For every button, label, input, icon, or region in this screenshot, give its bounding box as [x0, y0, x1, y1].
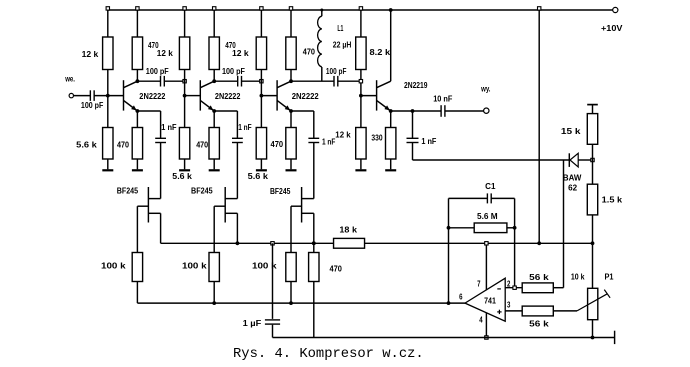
wire +10V supply rail [108, 9, 613, 11]
label P1 [605, 273, 615, 282]
node emitter stage 3 [289, 109, 293, 113]
svg-text:12 k: 12 k [157, 49, 174, 58]
wire Q4 emitter to 330 [390, 111, 392, 128]
wire 12k to base node stage 2 [184, 70, 186, 96]
svg-text:470: 470 [303, 48, 316, 57]
resistor 470 emitter stage 2 [209, 128, 219, 160]
label 10 nF [433, 94, 452, 103]
resistor 470 emitter stage 3 [286, 128, 296, 160]
svg-text:Rys. 4. Kompresor w.cz.: Rys. 4. Kompresor w.cz. [233, 347, 424, 362]
wire 100k to output bus stage 2 [213, 282, 215, 304]
svg-text:wy.: wy. [480, 84, 490, 93]
label BF245 stage 1 [117, 186, 139, 195]
svg-text:1 nF: 1 nF [421, 137, 436, 146]
node pin 7 bus tap [485, 242, 488, 245]
node rail tap 8.2k [359, 7, 362, 10]
node coupling junction stage 2 [183, 80, 186, 83]
power tap bar 15k [587, 105, 598, 114]
wire JFET source to bus stage 2 [236, 213, 238, 243]
label 2N2222 stage 2 [215, 92, 241, 101]
capacitor 1 nF detector [407, 138, 419, 142]
wire base lead stage 2 [185, 95, 201, 97]
svg-text:2N2222: 2N2222 [139, 92, 166, 101]
node rail tap stage 3 bias [260, 7, 263, 10]
resistor 12 k stage 3 [256, 37, 266, 70]
label 10 k [571, 273, 585, 282]
wire base node to 5.6k stage 2 [184, 96, 186, 128]
wire rail drop to bus [538, 10, 540, 243]
resistor 100 k stage 3 [286, 253, 296, 282]
node bus right end [591, 241, 595, 245]
wire 5.6M left lead [449, 227, 475, 229]
ground stage 1 emitter [132, 159, 143, 170]
svg-text:100 pF: 100 pF [81, 101, 104, 110]
svg-text:1.5 k: 1.5 k [602, 195, 623, 204]
node 5.6M left [447, 226, 451, 230]
node 100k output bus junction stage 3 [289, 301, 293, 305]
node 5.6M right [513, 226, 517, 230]
label 12 k Q4 [335, 131, 351, 140]
svg-text:12 k: 12 k [335, 131, 351, 140]
label 1 nF stage 3 [322, 137, 336, 146]
svg-text:100 pF: 100 pF [146, 67, 169, 76]
wire base node to 5.6k stage 1 [107, 96, 109, 128]
wire rail drop stage 2 collector [213, 10, 215, 37]
wire JFET source to bus stage 3 [313, 213, 315, 243]
svg-text:5.6 M: 5.6 M [477, 212, 498, 221]
resistor 470 collector stage 2 [209, 37, 219, 70]
capacitor C1 [487, 193, 491, 203]
wire pin 2 lead [505, 287, 522, 289]
resistor 470 emitter stage 1 [132, 128, 142, 160]
label C1 [485, 182, 496, 191]
svg-text:C1: C1 [485, 182, 496, 191]
resistor 1.5 k [587, 184, 597, 215]
wire 470 to collector node stage 2 [213, 70, 215, 82]
wire output node to 10nF [413, 110, 442, 112]
wire coupling cap to next stage 2 [242, 80, 262, 82]
label 470 emitter stage 1 [117, 141, 130, 150]
wire 12k to base node stage 1 [107, 70, 109, 96]
wire C to base node [94, 95, 123, 97]
wire pin 4 to bottom bus [485, 313, 487, 338]
wire feedback top left [449, 197, 488, 199]
label 1 nF detector [421, 137, 436, 146]
label 330 [371, 133, 383, 142]
ground Q4 emitter [385, 159, 396, 170]
svg-text:1 nF: 1 nF [161, 123, 176, 132]
label 100 k stage 1 [101, 262, 126, 271]
wire rail drop stage 3 collector [290, 10, 292, 37]
svg-text:470: 470 [196, 141, 209, 150]
caption Rys. 4. Kompresor w.cz. [233, 347, 424, 362]
label 470 collector stage 2 [225, 41, 236, 50]
label 100 pF coupling stage 1 [146, 67, 169, 76]
wire rail drop stage 1 bias [107, 10, 109, 37]
svg-text:2N2222: 2N2222 [215, 92, 241, 101]
label 100 k stage 3 [252, 262, 277, 271]
label 8.2 k [370, 48, 391, 57]
label 470 emitter stage 3 [271, 140, 284, 149]
label pin 2 [507, 279, 511, 288]
node pin 2 feedback tap [513, 286, 516, 289]
svg-text:BF245: BF245 [191, 186, 213, 195]
wire collector to coupling cap stage 1 [137, 80, 160, 82]
wire 56k lower to wiper [553, 310, 577, 312]
node collector stage 3 [289, 79, 293, 83]
label 470 collector stage 1 [148, 41, 159, 50]
resistor 5.6 k stage 2 [179, 128, 189, 160]
label 12 k stage 3 [232, 49, 249, 58]
svg-text:BF245: BF245 [117, 186, 139, 195]
wire 1nF to JFET drain stage 2 [236, 143, 238, 199]
wire 1uF to bottom bus [272, 325, 274, 338]
wire 56k upper to detector [553, 160, 563, 288]
transistor BF245 stage 3 [291, 187, 314, 223]
node JFET source bus junction stage 2 [236, 241, 240, 245]
svg-text:10 k: 10 k [571, 273, 585, 282]
wire feedback right vertical [514, 198, 516, 287]
wire feedback top right [491, 197, 514, 199]
wire gate drop stage 3 [290, 206, 292, 252]
transistor Q2 2N2222 [200, 80, 214, 111]
wire collector to coupling cap stage 2 [214, 80, 238, 82]
label 2N2219 [404, 81, 428, 90]
wire output node to det 1nF [412, 111, 414, 138]
resistor 100 k stage 2 [209, 253, 219, 282]
ground Q4 base divider [355, 159, 366, 170]
wire base node to 12k Q4 [360, 96, 362, 128]
wire rail drop stage 2 bias [184, 10, 186, 37]
capacitor 100 pF coupling stage 3 [334, 76, 338, 87]
label BF245 stage 2 [191, 186, 213, 195]
label 470 collector stage 3 [303, 48, 316, 57]
node 470 tap [312, 241, 316, 245]
label L1 [337, 24, 343, 33]
capacitor 100 pF coupling stage 1 [161, 76, 165, 87]
wire 470 control to bottom bus [313, 282, 315, 338]
node feedback output junction [447, 301, 451, 305]
wire Q4 collector to rail [390, 10, 392, 81]
node diode junction [591, 158, 594, 161]
node base stage 3 [260, 94, 264, 98]
ground stage 2 emitter [209, 159, 220, 170]
svg-text:P1: P1 [605, 273, 615, 282]
label 470 control [330, 265, 343, 274]
label 56 k lower [529, 320, 549, 329]
svg-text:100 k: 100 k [101, 262, 126, 271]
label +10V [601, 24, 623, 33]
node emitter Q4 [389, 109, 393, 113]
svg-text:5.6 k: 5.6 k [76, 141, 97, 150]
wire 5.6M right lead [507, 227, 515, 229]
wire base node to 5.6k stage 3 [260, 96, 262, 128]
svg-text:BF245: BF245 [270, 187, 291, 196]
node rail tap bus drop [538, 7, 541, 10]
capacitor 1 nF stage 2 [232, 138, 243, 142]
wire emitter to 1nF stage 1 [137, 111, 160, 138]
svg-text:1 nF: 1 nF [238, 123, 252, 132]
wire rail drop 8.2k [360, 10, 362, 37]
wire 470 to collector node stage 1 [136, 70, 138, 82]
terminal bottom bus end [614, 331, 616, 344]
capacitor 1 uF [265, 320, 280, 324]
ground stage 2 bias [179, 159, 190, 170]
label pin 3 [507, 300, 511, 309]
wire 1nF to JFET drain stage 3 [313, 143, 315, 199]
resistor 8.2 k [356, 37, 366, 70]
wire input to C [74, 95, 91, 97]
svg-text:62: 62 [568, 183, 578, 192]
transistor BF245 stage 1 [137, 187, 160, 223]
wire 1nF to JFET drain stage 1 [160, 143, 162, 199]
wire rail drop stage 1 collector [136, 10, 138, 37]
svg-text:1 µF: 1 µF [243, 319, 262, 328]
inductor L1 22 uH [318, 16, 322, 67]
resistor 12 k stage 2 [179, 37, 189, 70]
label 2N2222 stage 3 [292, 92, 320, 101]
label plus input [497, 310, 501, 314]
svg-text:+10V: +10V [601, 24, 623, 33]
wire 100k to output bus stage 3 [290, 282, 292, 304]
svg-text:470: 470 [330, 265, 343, 274]
label 15 k [561, 127, 581, 136]
svg-text:10 nF: 10 nF [433, 94, 452, 103]
label 1 nF stage 1 [161, 123, 176, 132]
svg-text:56 k: 56 k [529, 273, 549, 282]
node emitter stage 1 [136, 109, 140, 113]
wire 12k to base node stage 3 [260, 70, 262, 96]
terminal +10V [613, 7, 618, 12]
wire 1uF tap down [272, 243, 274, 319]
svg-text:5.6 k: 5.6 k [172, 172, 192, 181]
resistor 5.6 k stage 3 [256, 128, 266, 160]
node 100k output bus junction stage 2 [212, 301, 216, 305]
wire 15k to diode junction [592, 144, 594, 160]
node rail tap stage 3 collector [289, 7, 292, 10]
svg-text:2N2219: 2N2219 [404, 81, 428, 90]
label 18 k [339, 226, 357, 235]
wire 470 to collector node stage 3 [290, 70, 292, 82]
capacitor 100 pF input [90, 90, 94, 101]
resistor 5.6 M [474, 223, 507, 233]
wire source bus left [161, 242, 334, 244]
label 1.5 k [602, 195, 623, 204]
wire emitter to 1nF stage 3 [291, 111, 314, 138]
transistor BF245 stage 2 [214, 187, 237, 223]
node rail tap stage 1 collector [136, 7, 139, 10]
transistor Q3 2N2222 [277, 80, 291, 111]
wire Q4 emitter to output node [391, 110, 413, 112]
resistor 470 collector stage 1 [132, 37, 142, 70]
label BF245 stage 3 [270, 187, 291, 196]
label wy. [480, 84, 490, 93]
wire base lead stage 3 [261, 95, 277, 97]
resistor 470 control [309, 253, 319, 282]
label 741 [484, 297, 496, 306]
svg-text:12 k: 12 k [82, 50, 99, 59]
capacitor 100 pF coupling stage 2 [238, 76, 242, 87]
terminal input we. [69, 93, 73, 97]
transistor Q1 2N2222 [124, 80, 138, 111]
resistor 12 k Q4 [356, 128, 366, 160]
label 62 [568, 183, 578, 192]
wire gate drop stage 2 [213, 206, 215, 252]
ground stage 3 bias [256, 159, 267, 170]
node 1uF tap [271, 242, 274, 245]
node coupling junction stage 3 [260, 80, 263, 83]
node collector stage 1 [136, 79, 140, 83]
svg-text:4: 4 [479, 315, 483, 324]
label 1 nF stage 2 [238, 123, 252, 132]
svg-text:470: 470 [117, 141, 130, 150]
svg-text:2N2222: 2N2222 [292, 92, 320, 101]
wire output bus [137, 302, 465, 304]
label 22 uH [333, 41, 352, 50]
svg-text:56 k: 56 k [529, 320, 549, 329]
wire pin 7 supply [485, 243, 487, 290]
node rail L1 tap [320, 9, 323, 12]
svg-text:330: 330 [371, 133, 383, 142]
node rail tap stage 1 bias [106, 7, 109, 10]
svg-text:6: 6 [459, 292, 463, 301]
svg-text:100 k: 100 k [182, 262, 207, 271]
wire coupling cap to next stage 3 [338, 80, 361, 82]
wire L1 to collector line [321, 67, 323, 81]
svg-text:2: 2 [507, 279, 511, 288]
wire bottom bus [273, 337, 615, 339]
diode BAW62 [569, 153, 578, 167]
svg-text:BAW: BAW [563, 173, 582, 182]
label 5.6 k stage 2 [172, 172, 192, 181]
svg-text:we.: we. [64, 75, 75, 84]
node P1 bottom bus junction [591, 336, 595, 340]
node base Q4 [359, 94, 363, 98]
label 470 emitter stage 2 [196, 141, 209, 150]
wire pin 3 lead [505, 310, 522, 312]
ground stage 1 bias [102, 159, 113, 170]
wire emitter to 470 stage 2 [213, 111, 215, 128]
svg-text:100 k: 100 k [252, 262, 277, 271]
wire 8.2k to junction [360, 70, 362, 96]
wire 1.5k to bus [592, 215, 594, 243]
label 12 k stage 1 [82, 50, 99, 59]
svg-text:3: 3 [507, 300, 511, 309]
wire 10nF to output terminal [445, 110, 484, 112]
svg-text:741: 741 [484, 297, 496, 306]
wire rail drop stage 3 bias [260, 10, 262, 37]
svg-text:7: 7 [477, 279, 480, 288]
label we. [64, 75, 75, 84]
wire emitter to 1nF stage 2 [214, 111, 237, 138]
svg-text:100 pF: 100 pF [222, 67, 245, 76]
node emitter stage 2 [212, 109, 216, 113]
label 100 pF coupling stage 2 [222, 67, 245, 76]
wire bus to P1 [592, 243, 594, 288]
node base stage 2 [183, 94, 187, 98]
resistor 56 k upper [522, 283, 553, 293]
wire 470 tap down [313, 243, 315, 252]
resistor 56 k lower [522, 306, 553, 316]
node pin 4 bus tap [485, 336, 488, 339]
label 56 k upper [529, 273, 549, 282]
label pin 6 [459, 292, 463, 301]
wire 100k to output bus stage 1 [136, 282, 138, 304]
label 1 uF [243, 319, 262, 328]
resistor 100 k stage 1 [132, 253, 142, 282]
label 2N2222 stage 1 [139, 92, 166, 101]
svg-text:L1: L1 [337, 24, 343, 33]
node JFET source bus junction stage 3 [312, 241, 316, 245]
svg-text:5.6 k: 5.6 k [248, 172, 269, 181]
wire emitter to 470 stage 3 [290, 111, 292, 128]
resistor 15 k [587, 114, 597, 145]
svg-text:18 k: 18 k [339, 226, 357, 235]
wire det 1nF down [412, 143, 414, 161]
node coupling junction Q4 [359, 80, 362, 83]
op-amp U1 741 [465, 278, 505, 321]
label 12 k stage 2 [157, 49, 174, 58]
svg-text:8.2 k: 8.2 k [370, 48, 391, 57]
svg-text:470: 470 [271, 140, 284, 149]
wire detector line [413, 159, 570, 161]
wire collector to coupling cap stage 3 [291, 80, 334, 82]
node rail Q4 collector [389, 8, 393, 12]
wire JFET source to bus stage 1 [160, 213, 162, 243]
wiper arrow P1 [577, 290, 610, 311]
label 5.6 M [477, 212, 498, 221]
wire emitter to 470 stage 1 [136, 111, 138, 128]
svg-text:1 nF: 1 nF [322, 137, 336, 146]
wire P1 to bottom bus [592, 320, 594, 338]
label pin 7 [477, 279, 480, 288]
capacitor 10 nF [441, 105, 445, 117]
potentiometer P1 10 k [588, 288, 598, 319]
label 5.6 k stage 3 [248, 172, 269, 181]
label 5.6 k stage 1 [76, 141, 97, 150]
svg-text:15 k: 15 k [561, 127, 581, 136]
label minus input [497, 288, 501, 290]
label BAW [563, 173, 582, 182]
resistor 18 k [334, 238, 365, 248]
node rail tap stage 2 bias [183, 7, 186, 10]
node base stage 1 [106, 94, 110, 98]
wire feedback left vertical [448, 198, 450, 303]
wire diode to junction [578, 159, 592, 161]
label 100 pF input [81, 101, 104, 110]
node output branch [411, 109, 415, 113]
label 100 k stage 2 [182, 262, 207, 271]
resistor 330 [386, 128, 396, 160]
label pin 4 [479, 315, 483, 324]
terminal output wy. [484, 108, 489, 113]
ground stage 3 emitter [286, 159, 297, 170]
wire junction to 1.5k [592, 160, 594, 184]
resistor 470 collector stage 3 [286, 37, 296, 70]
wire rail to L1 [321, 10, 323, 16]
svg-text:22 µH: 22 µH [333, 41, 352, 50]
capacitor 1 nF stage 1 [155, 138, 166, 142]
label 100 pF coupling stage 3 [326, 67, 347, 76]
node rail tap stage 2 collector [213, 7, 216, 10]
resistor 12 k stage 1 [103, 37, 113, 70]
wire coupling cap to next stage 1 [164, 80, 184, 82]
wire gate drop stage 1 [136, 206, 138, 252]
node collector stage 2 [212, 79, 216, 83]
wire base lead Q4 [361, 95, 377, 97]
transistor Q4 2N2219 [377, 80, 391, 111]
svg-text:12 k: 12 k [232, 49, 249, 58]
